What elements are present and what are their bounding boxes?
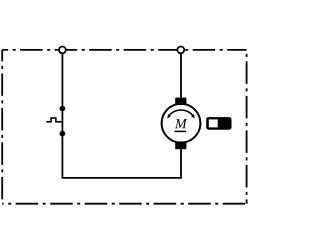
magnet white window	[209, 119, 218, 127]
motor M1 bottom brush	[175, 141, 186, 149]
motor M underline	[174, 130, 186, 132]
motor M1 body circle	[162, 104, 201, 143]
motor rotation arrow arc	[169, 110, 193, 116]
arrowhead right	[191, 114, 195, 118]
left border	[1, 50, 3, 204]
switch S1 actuator (step)	[46, 118, 62, 122]
terminal T1 (left, on top border)	[59, 47, 66, 54]
enclosure boundary (dash-dot frame)	[2, 50, 246, 204]
switch S1 contact dot lower	[60, 131, 66, 137]
switch S1 contact dot upper	[60, 106, 66, 112]
permanent magnet element (half black rounded rect)	[206, 117, 231, 130]
wire right branch (terminal to motor)	[180, 53, 182, 98]
bottom border	[2, 203, 246, 205]
terminal T2 (right, on top border)	[177, 47, 184, 54]
right border	[246, 50, 248, 204]
top border	[2, 49, 246, 51]
motor letter M	[175, 119, 187, 128]
motor M1 top brush	[175, 98, 186, 105]
wire left branch and bottom run	[62, 53, 181, 178]
arrowhead left	[167, 114, 171, 118]
